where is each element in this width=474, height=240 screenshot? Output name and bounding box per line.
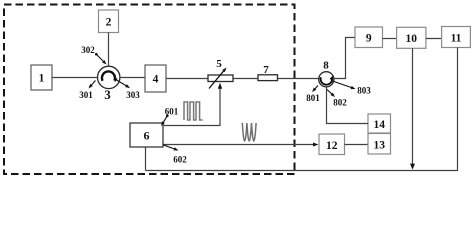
svg-text:10: 10 [405, 33, 417, 45]
pulse train symbol [184, 102, 203, 120]
svg-text:6: 6 [144, 129, 150, 143]
sine burst symbol [242, 123, 256, 141]
filter 7 [258, 75, 278, 81]
wire box 9 to box 10 [383, 38, 397, 40]
svg-text:8: 8 [323, 60, 329, 72]
svg-text:9: 9 [366, 33, 372, 45]
svg-text:11: 11 [451, 33, 462, 45]
svg-text:1: 1 [39, 73, 45, 85]
svg-text:4: 4 [153, 74, 159, 86]
svg-text:803: 803 [357, 86, 371, 96]
label 301 with leader [79, 81, 95, 101]
svg-text:301: 301 [79, 90, 93, 100]
svg-text:14: 14 [373, 119, 385, 131]
box 1 [31, 65, 52, 90]
svg-text:3: 3 [104, 87, 111, 102]
label 602 with leader [163, 145, 187, 165]
wire box 6 to box 12 [163, 143, 319, 147]
svg-text:801: 801 [306, 93, 320, 103]
label 803 with leader [333, 81, 372, 96]
svg-text:7: 7 [263, 64, 269, 76]
wire box 12 to box 13 [345, 144, 369, 146]
wire box 11 down to bottom bus [457, 48, 459, 171]
attenuator 5 [208, 66, 233, 88]
box 4 [145, 65, 166, 92]
svg-text:13: 13 [373, 140, 385, 152]
label 801 with leader [306, 86, 320, 104]
box 12 [319, 134, 345, 155]
box 11 [442, 27, 471, 48]
wire box2 to circulator 3 [108, 33, 110, 67]
wire box 4 to attenuator 5 [166, 78, 208, 80]
wire circulator 3 to box 4 [120, 77, 145, 79]
wire circulator 8 to box 9 [334, 38, 355, 79]
box 6 [130, 123, 163, 147]
wire box 6 down to bottom bus [145, 147, 147, 171]
bottom bus wire [146, 170, 459, 172]
wire attenuator 5 to filter 7 [233, 78, 258, 80]
box 9 [355, 27, 383, 48]
box 2 [99, 10, 119, 33]
label 303 with leader [117, 80, 141, 100]
wire box 6 to attenuator control [163, 83, 222, 126]
svg-text:602: 602 [173, 155, 187, 165]
circulator 3 [98, 66, 120, 88]
circulator 8 [319, 72, 335, 87]
wire box 10 to box 11 [426, 38, 442, 40]
box 14 [368, 114, 391, 133]
wire filter 7 to circulator 8 [278, 78, 319, 80]
label 601 with leader [160, 107, 179, 127]
wire box1 to circulator 3 [52, 77, 99, 79]
box 10 [397, 27, 426, 48]
svg-text:2: 2 [106, 17, 112, 29]
label 802 with leader [327, 90, 347, 108]
svg-text:302: 302 [81, 45, 95, 55]
svg-text:12: 12 [326, 140, 338, 152]
label 302 with leader [81, 45, 107, 66]
svg-text:5: 5 [216, 58, 222, 70]
svg-text:303: 303 [126, 90, 140, 100]
wire box 10 down arrow [410, 48, 415, 169]
svg-text:802: 802 [333, 98, 347, 108]
box 13 [368, 134, 391, 155]
dashed enclosure [4, 5, 295, 175]
wire circulator 8 to box 14 [327, 87, 369, 124]
